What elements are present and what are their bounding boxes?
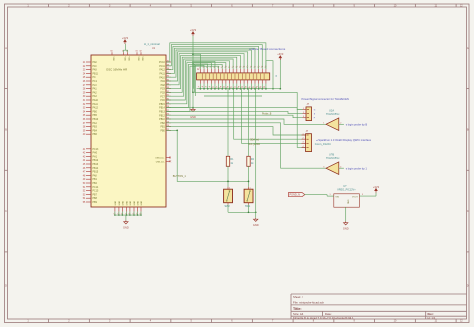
svg-text:3: 3 xyxy=(302,142,303,144)
svg-text:3: 3 xyxy=(323,166,324,168)
svg-text:PB13: PB13 xyxy=(93,164,99,166)
svg-text:PA1: PA1 xyxy=(93,88,98,91)
svg-text:ThAiVC5Vx: ThAiVC5Vx xyxy=(326,112,340,116)
svg-text:OSC 16MHz HR: OSC 16MHz HR xyxy=(106,68,127,72)
svg-text:PA3: PA3 xyxy=(93,95,98,98)
svg-text:PH1: PH1 xyxy=(93,156,98,158)
svg-text:+3V3: +3V3 xyxy=(122,36,129,40)
svg-text:PC7: PC7 xyxy=(160,96,165,98)
svg-text:PC10: PC10 xyxy=(159,62,165,64)
svg-text:File: miniprobe-kicad.sch: File: miniprobe-kicad.sch xyxy=(293,300,324,304)
svg-text:U2A: U2A xyxy=(329,108,334,112)
svg-text:H_1_minimal: H_1_minimal xyxy=(144,42,160,46)
svg-text:PA8: PA8 xyxy=(161,84,166,87)
svg-text:GND: GND xyxy=(347,200,349,205)
svg-text:Title:: Title: xyxy=(293,307,302,311)
svg-text:Conn_01x04: Conn_01x04 xyxy=(315,142,331,146)
svg-text:PB15: PB15 xyxy=(159,104,165,106)
svg-text:VREG_PIC12V+: VREG_PIC12V+ xyxy=(337,189,356,192)
svg-text:1: 1 xyxy=(229,187,230,189)
svg-text:ThAiVC5Vx: ThAiVC5Vx xyxy=(326,156,340,160)
svg-text:PB14: PB14 xyxy=(159,108,165,110)
svg-text:GND: GND xyxy=(119,200,121,205)
svg-text:Sheet: /: Sheet: / xyxy=(293,295,303,299)
svg-text:PB10: PB10 xyxy=(93,119,99,121)
svg-text:4: 4 xyxy=(340,166,341,168)
svg-text:PB5: PB5 xyxy=(93,115,98,117)
svg-text:PB12: PB12 xyxy=(159,115,165,117)
svg-text:2: 2 xyxy=(302,138,303,140)
svg-text:USB_D2-: USB_D2- xyxy=(156,161,165,163)
svg-text:1: 1 xyxy=(303,108,304,110)
svg-text:1: 1 xyxy=(323,122,324,124)
svg-text:PH0: PH0 xyxy=(93,153,98,155)
svg-text:C: C xyxy=(5,210,7,213)
svg-text:Power/Signal connector for THA: Power/Signal connector for THAI/ECEN xyxy=(302,97,349,101)
svg-text:PB6: PB6 xyxy=(93,134,98,136)
svg-text:GND: GND xyxy=(130,200,132,205)
svg-text:PB10: PB10 xyxy=(159,119,165,121)
svg-text:GND: GND xyxy=(122,200,124,205)
svg-text:VIN: VIN xyxy=(335,196,339,198)
svg-text:3: 3 xyxy=(362,194,363,196)
svg-text:PGND_N: PGND_N xyxy=(290,194,301,197)
svg-text:GND: GND xyxy=(123,226,129,230)
svg-text:Id: 1/1: Id: 1/1 xyxy=(428,316,436,320)
svg-text:VDD: VDD xyxy=(127,57,129,62)
svg-text:1: 1 xyxy=(302,133,303,135)
svg-text:PB2: PB2 xyxy=(93,183,98,185)
svg-text:PA11: PA11 xyxy=(160,73,166,76)
svg-text:GND: GND xyxy=(253,223,259,227)
svg-text:VDD: VDD xyxy=(137,57,139,62)
svg-text:PA11: PA11 xyxy=(93,103,99,106)
svg-text:4: 4 xyxy=(302,146,303,148)
svg-text:U?B: U?B xyxy=(329,152,334,156)
svg-text:SW1: SW1 xyxy=(245,205,251,208)
svg-text:1: 1 xyxy=(250,187,251,189)
svg-text:PC8: PC8 xyxy=(160,93,165,95)
svg-text:D: D xyxy=(5,284,7,287)
svg-text:PB1: PB1 xyxy=(93,179,98,181)
svg-text:C: C xyxy=(467,210,469,213)
svg-text:PA10: PA10 xyxy=(93,99,99,102)
svg-text:PB4: PB4 xyxy=(93,130,98,132)
svg-text:2: 2 xyxy=(340,122,341,124)
svg-text:PB0: PB0 xyxy=(160,131,165,133)
svg-text:GND: GND xyxy=(141,200,143,205)
svg-text:GND: GND xyxy=(137,200,139,205)
svg-text:GND: GND xyxy=(190,115,196,119)
svg-text:PB14: PB14 xyxy=(93,168,99,170)
svg-text:◂ SparkFun 1.3 OLED Display QW: ◂ SparkFun 1.3 OLED Display QWIC interfa… xyxy=(316,138,371,142)
svg-text:PB11: PB11 xyxy=(93,73,99,75)
svg-text:PB13: PB13 xyxy=(159,112,165,114)
svg-text:PB7: PB7 xyxy=(93,194,98,196)
svg-text:PC: PC xyxy=(93,77,97,79)
svg-text:Adapter Board connections: Adapter Board connections xyxy=(249,47,286,51)
svg-text:VOUT: VOUT xyxy=(352,196,359,198)
svg-text:PB2: PB2 xyxy=(160,123,165,125)
svg-text:PB3: PB3 xyxy=(93,127,98,129)
svg-text:PA12: PA12 xyxy=(159,69,165,72)
svg-text:Probe_B: Probe_B xyxy=(262,112,272,115)
svg-text:PA12: PA12 xyxy=(93,107,99,110)
svg-text:PA0: PA0 xyxy=(93,61,98,64)
svg-text:◂ login probe tip 1: ◂ login probe tip 1 xyxy=(346,166,368,170)
svg-text:D: D xyxy=(467,284,469,287)
svg-text:PB8: PB8 xyxy=(93,198,98,200)
svg-text:BUTTON_1: BUTTON_1 xyxy=(173,175,187,178)
svg-text:3: 3 xyxy=(303,116,304,118)
svg-text:PC13: PC13 xyxy=(93,149,99,151)
svg-text:P10: P10 xyxy=(93,66,98,68)
svg-text:SDA red: SDA red xyxy=(250,139,260,142)
svg-text:PB12: PB12 xyxy=(93,160,99,162)
svg-text:PA2: PA2 xyxy=(93,91,98,94)
svg-text:PC6: PC6 xyxy=(160,100,165,102)
svg-text:PC14: PC14 xyxy=(93,187,99,189)
svg-text:PB1: PB1 xyxy=(160,127,165,129)
svg-text:PL3: PL3 xyxy=(93,85,98,87)
svg-text:PA10: PA10 xyxy=(159,76,165,79)
svg-text:USB_D2+: USB_D2+ xyxy=(155,158,165,160)
svg-text:VDD: VDD xyxy=(141,57,143,62)
svg-text:GND: GND xyxy=(134,200,136,205)
svg-text:1: 1 xyxy=(329,194,330,196)
svg-text:+3V3: +3V3 xyxy=(190,28,197,32)
svg-text:+3V3: +3V3 xyxy=(373,185,380,189)
svg-text:VDD: VDD xyxy=(123,57,125,62)
svg-text:KiCad E.D.A. kicad 7.0.10~7.0: KiCad E.D.A. kicad 7.0.10~7.0.10-ubuntu2… xyxy=(293,316,354,320)
svg-text:PC15: PC15 xyxy=(93,191,99,193)
svg-text:GND: GND xyxy=(126,200,128,205)
svg-text:GND: GND xyxy=(343,227,349,231)
svg-text:PA9: PA9 xyxy=(93,69,98,72)
svg-text:GND: GND xyxy=(115,200,117,205)
svg-text:PC9: PC9 xyxy=(160,89,165,91)
svg-text:VDD: VDD xyxy=(112,57,114,62)
svg-text:PC11: PC11 xyxy=(159,66,165,68)
svg-text:◂ login probe tip B: ◂ login probe tip B xyxy=(346,122,368,126)
svg-text:PB9: PB9 xyxy=(93,202,98,204)
svg-text:PA8: PA8 xyxy=(93,174,98,177)
svg-text:SW2: SW2 xyxy=(225,205,231,208)
svg-text:PA4: PA4 xyxy=(93,122,98,125)
svg-text:PB0: PB0 xyxy=(93,111,98,113)
svg-text:SCL yellow: SCL yellow xyxy=(248,143,260,146)
svg-text:PC1: PC1 xyxy=(93,81,98,83)
svg-text:PB15: PB15 xyxy=(93,172,99,174)
svg-text:+3V3: +3V3 xyxy=(277,52,284,56)
svg-text:2: 2 xyxy=(303,112,304,114)
svg-text:PA9: PA9 xyxy=(161,80,166,83)
